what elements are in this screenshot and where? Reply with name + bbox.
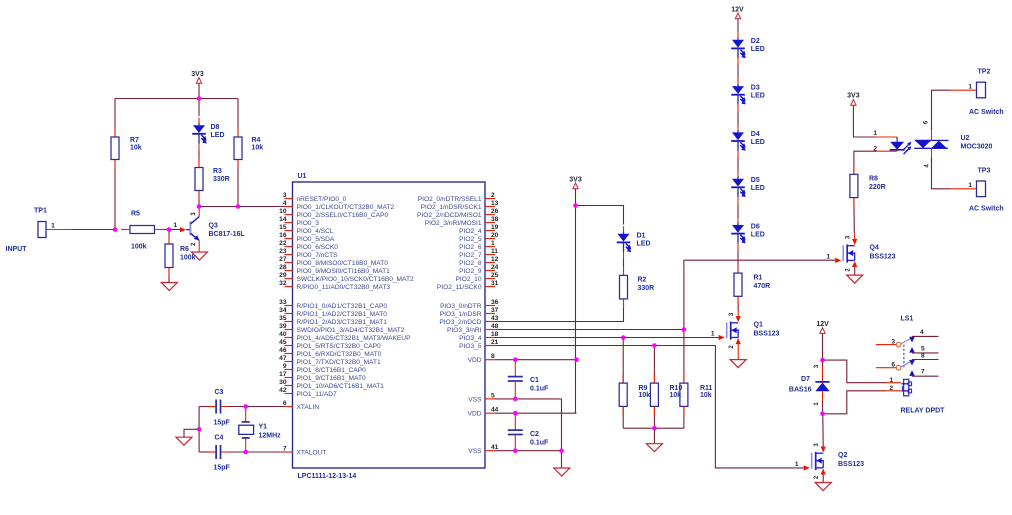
wire to D5 bbox=[737, 158, 739, 172]
resistor R2 bbox=[623, 259, 625, 276]
junction R3/Q3 collector bbox=[197, 204, 202, 209]
svg-text:15pF: 15pF bbox=[214, 465, 231, 472]
junction C2 bottom bbox=[513, 448, 518, 453]
svg-text:220R: 220R bbox=[869, 184, 886, 191]
junction 3V3/VDD row bbox=[574, 357, 579, 362]
capacitor C2 bbox=[514, 413, 516, 430]
wire 3V3 to top rail bbox=[198, 83, 200, 98]
svg-text:18: 18 bbox=[491, 331, 499, 338]
U1 right pins PIO3 group bbox=[485, 305, 495, 307]
svg-text:R8: R8 bbox=[869, 176, 878, 183]
svg-text:LED: LED bbox=[751, 185, 765, 192]
ground under R6 bbox=[161, 283, 177, 291]
power 3V3 (opto) bbox=[851, 100, 856, 106]
wire Q2 source to ground bbox=[822, 474, 824, 482]
wire to LED D1 bbox=[576, 206, 624, 225]
svg-text:2: 2 bbox=[873, 146, 877, 153]
svg-text:19: 19 bbox=[491, 224, 499, 231]
resistor R3 bbox=[195, 168, 203, 191]
svg-text:1: 1 bbox=[873, 130, 877, 137]
svg-text:27: 27 bbox=[279, 256, 287, 263]
wire to relay coil pin 2 bbox=[823, 391, 887, 414]
U1 pin 8 VDD bbox=[485, 359, 495, 361]
relay pole 2 common pin 6 bbox=[876, 367, 896, 369]
svg-text:D4: D4 bbox=[751, 131, 760, 138]
wire 3V3 to U2 pin 1 bbox=[853, 105, 876, 137]
ground under Q3 emitter bbox=[192, 252, 208, 260]
wire PIO3_3 row to R11 bbox=[495, 329, 684, 331]
wire cap ground rail bbox=[198, 407, 200, 453]
svg-text:Q1: Q1 bbox=[754, 322, 763, 329]
svg-text:24: 24 bbox=[491, 264, 499, 271]
svg-text:2: 2 bbox=[889, 385, 893, 392]
svg-text:26: 26 bbox=[491, 208, 499, 215]
svg-text:37: 37 bbox=[491, 307, 499, 314]
svg-text:30: 30 bbox=[279, 379, 287, 386]
svg-text:20: 20 bbox=[491, 232, 499, 239]
svg-text:0.1uF: 0.1uF bbox=[530, 386, 549, 393]
resistor R8 bbox=[850, 174, 858, 197]
power 12V (LED chain) bbox=[735, 13, 740, 19]
junction TP1/R7/R5 bbox=[113, 227, 118, 232]
svg-text:C3: C3 bbox=[215, 389, 224, 396]
LED D2 bbox=[737, 37, 739, 39]
junction top rail / D8 bbox=[197, 96, 202, 101]
wire VSS to ground bbox=[561, 451, 563, 468]
LED D6 bbox=[737, 223, 739, 225]
resistor R7 bbox=[114, 99, 116, 138]
wire to D4 bbox=[737, 111, 739, 125]
wire R5 to Q3 base bbox=[155, 229, 182, 231]
svg-text:RELAY DPDT: RELAY DPDT bbox=[901, 408, 946, 415]
U1 left pins PIO1 group bbox=[285, 305, 293, 307]
wire R1 to Q1 drain bbox=[737, 296, 739, 310]
svg-text:PIO2_5: PIO2_5 bbox=[459, 236, 482, 243]
svg-text:6: 6 bbox=[891, 362, 895, 369]
svg-text:35: 35 bbox=[279, 315, 287, 322]
svg-text:3V3: 3V3 bbox=[847, 93, 860, 100]
wire to relay coil pin 1 bbox=[823, 360, 887, 383]
wire to ground bbox=[653, 428, 655, 444]
junction ground rail bbox=[652, 426, 657, 431]
svg-text:R2: R2 bbox=[638, 277, 647, 284]
test point TP2 bbox=[977, 82, 986, 98]
svg-text:C4: C4 bbox=[215, 435, 224, 442]
svg-text:1: 1 bbox=[826, 254, 830, 261]
svg-text:SWCLK/PIO0_10/SCK0/CT16B0_MAT2: SWCLK/PIO0_10/SCK0/CT16B0_MAT2 bbox=[297, 276, 414, 283]
U1 right pins PIO2 group bbox=[485, 198, 495, 200]
svg-text:PIO2_1/nDSR/SCK1: PIO2_1/nDSR/SCK1 bbox=[421, 204, 482, 211]
wire VDD pin44 row bbox=[495, 412, 577, 414]
svg-text:9: 9 bbox=[283, 363, 287, 370]
svg-text:330R: 330R bbox=[213, 176, 230, 183]
resistor R1 bbox=[734, 273, 742, 296]
svg-text:41: 41 bbox=[491, 444, 499, 451]
wire to D3 bbox=[737, 65, 739, 79]
svg-text:PIO2_3/nRI/MOSI1: PIO2_3/nRI/MOSI1 bbox=[425, 220, 482, 227]
svg-text:10k: 10k bbox=[639, 392, 651, 399]
wire to D6 bbox=[737, 204, 739, 218]
svg-text:XTALOUT: XTALOUT bbox=[297, 449, 327, 456]
svg-text:330R: 330R bbox=[638, 285, 655, 292]
svg-text:45: 45 bbox=[279, 339, 287, 346]
svg-text:R9: R9 bbox=[639, 385, 648, 392]
svg-text:21: 21 bbox=[491, 339, 499, 346]
svg-text:PIO0_6/SCK0: PIO0_6/SCK0 bbox=[297, 244, 339, 251]
ground (crystal) bbox=[176, 437, 192, 445]
svg-text:VDD: VDD bbox=[468, 411, 482, 418]
test point TP1 bbox=[38, 222, 46, 238]
svg-text:1: 1 bbox=[889, 377, 893, 384]
svg-text:28: 28 bbox=[279, 264, 287, 271]
svg-text:PIO1_10/AD6/CT16B1_MAT1: PIO1_10/AD6/CT16B1_MAT1 bbox=[297, 383, 385, 390]
svg-text:PIO2_11/SCK0: PIO2_11/SCK0 bbox=[437, 284, 482, 291]
junction D7/Q2 drain/coil bbox=[820, 412, 825, 417]
svg-text:31: 31 bbox=[491, 280, 499, 287]
ground (Q2) bbox=[815, 483, 831, 491]
wire 3V3 vertical rail to VDD bbox=[575, 189, 577, 414]
svg-text:12: 12 bbox=[491, 256, 499, 263]
svg-text:PIO1_6/RXD/CT32B0_MAT0: PIO1_6/RXD/CT32B0_MAT0 bbox=[297, 351, 382, 358]
relay coil bbox=[904, 379, 909, 395]
svg-text:PIO1_7/TXD/CT32B0_MAT1: PIO1_7/TXD/CT32B0_MAT1 bbox=[297, 359, 381, 366]
svg-text:47: 47 bbox=[279, 355, 287, 362]
wire U2 pin 4 to TP3 bbox=[931, 148, 933, 162]
ground (pulldowns) bbox=[646, 444, 662, 452]
svg-text:PIO0_3: PIO0_3 bbox=[297, 220, 320, 227]
svg-text:TP3: TP3 bbox=[978, 168, 991, 175]
svg-text:R10: R10 bbox=[670, 385, 683, 392]
crystal Y1 12MHz bbox=[245, 407, 247, 422]
svg-text:1: 1 bbox=[491, 240, 495, 247]
svg-text:AC Switch: AC Switch bbox=[969, 109, 1004, 116]
svg-text:R/PIO1_0/AD1/CT32B1_CAP0: R/PIO1_0/AD1/CT32B1_CAP0 bbox=[297, 303, 388, 310]
svg-text:7: 7 bbox=[283, 445, 287, 452]
junction Y1/XTALIN bbox=[243, 404, 248, 409]
resistor R11 bbox=[683, 330, 685, 384]
wire R11 node to Q4 gate bbox=[684, 260, 835, 329]
svg-text:C1: C1 bbox=[530, 377, 539, 384]
wire to D2 bbox=[737, 19, 739, 33]
test point TP3 bbox=[977, 181, 986, 197]
relay contact pin 8 bbox=[909, 360, 915, 366]
svg-text:LED: LED bbox=[751, 231, 765, 238]
wire Q4 source to ground bbox=[854, 267, 856, 275]
svg-text:PIO2_0/nDTR/SSEL1: PIO2_0/nDTR/SSEL1 bbox=[418, 196, 482, 203]
svg-text:0.1uF: 0.1uF bbox=[530, 440, 549, 447]
junction VSS/ground bbox=[559, 448, 564, 453]
svg-text:U2: U2 bbox=[961, 135, 970, 142]
svg-text:R/PIO1_2/AD3/CT32B1_MAT1: R/PIO1_2/AD3/CT32B1_MAT1 bbox=[297, 319, 388, 326]
svg-text:PIO3_3/nRI: PIO3_3/nRI bbox=[447, 327, 482, 334]
svg-text:R7: R7 bbox=[130, 137, 139, 144]
svg-text:10k: 10k bbox=[130, 145, 142, 152]
svg-text:PIO0_1/CLKOUT/CT32B0_MAT2: PIO0_1/CLKOUT/CT32B0_MAT2 bbox=[297, 204, 395, 211]
junction R9 bbox=[621, 335, 626, 340]
svg-text:13: 13 bbox=[491, 200, 499, 207]
svg-text:40: 40 bbox=[279, 331, 287, 338]
svg-text:32: 32 bbox=[279, 280, 287, 287]
svg-text:nRESET/PIO0_0: nRESET/PIO0_0 bbox=[297, 196, 347, 203]
svg-text:U1: U1 bbox=[298, 173, 307, 180]
svg-text:D8: D8 bbox=[211, 124, 220, 131]
wire Q1 source to ground bbox=[737, 344, 739, 360]
svg-text:15pF: 15pF bbox=[214, 420, 231, 427]
svg-text:D7: D7 bbox=[801, 376, 810, 383]
ground (VSS) bbox=[554, 468, 570, 476]
svg-text:17: 17 bbox=[279, 371, 287, 378]
wire pulldown ground rail bbox=[623, 427, 684, 429]
svg-text:7: 7 bbox=[921, 369, 925, 376]
svg-text:1: 1 bbox=[968, 84, 972, 91]
svg-text:VSS: VSS bbox=[468, 396, 482, 403]
svg-text:PIO2_9: PIO2_9 bbox=[459, 268, 482, 275]
svg-text:44: 44 bbox=[491, 407, 499, 414]
svg-text:29: 29 bbox=[279, 272, 287, 279]
wire R8 to Q4 drain bbox=[853, 198, 855, 233]
svg-text:PIO3_4: PIO3_4 bbox=[459, 335, 482, 342]
wire PIO3_4 row to Q1 gate bbox=[495, 337, 721, 339]
svg-text:R1: R1 bbox=[754, 275, 763, 282]
svg-text:38: 38 bbox=[491, 216, 499, 223]
junction 12V/D7/coil bbox=[820, 358, 825, 363]
U2 triac bbox=[915, 139, 949, 141]
svg-text:10k: 10k bbox=[670, 392, 682, 399]
transistor Q3 BC817-16L bbox=[186, 229, 190, 231]
svg-text:470R: 470R bbox=[754, 283, 771, 290]
svg-text:3: 3 bbox=[891, 339, 895, 346]
svg-text:TP2: TP2 bbox=[978, 69, 991, 76]
wire PIO3_5 row to Q2 gate bbox=[495, 346, 804, 468]
svg-text:Y1: Y1 bbox=[259, 424, 268, 431]
svg-text:LED: LED bbox=[637, 240, 651, 247]
svg-text:23: 23 bbox=[279, 248, 287, 255]
svg-text:R/PIO1_1/AD2/CT32B1_MAT0: R/PIO1_1/AD2/CT32B1_MAT0 bbox=[297, 311, 388, 318]
LED D5 bbox=[737, 176, 739, 178]
wire D6 to R1 bbox=[737, 250, 739, 273]
optocoupler U2 MOC3020 bbox=[896, 137, 898, 142]
svg-text:D1: D1 bbox=[637, 233, 646, 240]
U1 pin 5 VSS bbox=[485, 398, 495, 400]
svg-text:PIO0_2/SSEL0/CT16B0_CAP0: PIO0_2/SSEL0/CT16B0_CAP0 bbox=[297, 212, 389, 219]
relay pole 1 common pin 3 bbox=[876, 344, 896, 346]
svg-text:5: 5 bbox=[921, 346, 925, 353]
svg-text:3V3: 3V3 bbox=[569, 177, 582, 184]
ground (Q1) bbox=[730, 360, 746, 368]
power 3V3 (left) bbox=[196, 78, 201, 84]
svg-text:PIO1_9/CT16B1_MAT0: PIO1_9/CT16B1_MAT0 bbox=[297, 375, 366, 382]
svg-text:BC817-16L: BC817-16L bbox=[209, 231, 246, 238]
svg-text:Q3: Q3 bbox=[209, 223, 218, 230]
U1 pin 44 VDD bbox=[485, 412, 495, 414]
svg-text:R4: R4 bbox=[252, 137, 261, 144]
svg-text:48: 48 bbox=[491, 323, 499, 330]
svg-text:VDD: VDD bbox=[468, 357, 482, 364]
svg-text:D6: D6 bbox=[751, 223, 760, 230]
svg-text:8: 8 bbox=[491, 353, 495, 360]
wire U2 pin 6 to TP2 bbox=[931, 126, 933, 140]
svg-text:PIO2_8: PIO2_8 bbox=[459, 260, 482, 267]
resistor R10 bbox=[653, 346, 655, 384]
wire R2 to PIO3_2 row bbox=[495, 299, 624, 322]
svg-text:1: 1 bbox=[173, 222, 177, 229]
svg-text:C2: C2 bbox=[530, 431, 539, 438]
svg-text:11: 11 bbox=[491, 248, 498, 255]
svg-text:PIO1_8/CT16B1_CAP0: PIO1_8/CT16B1_CAP0 bbox=[297, 367, 367, 374]
svg-text:XTALIN: XTALIN bbox=[297, 404, 320, 411]
svg-text:PIO0_7/nCTS: PIO0_7/nCTS bbox=[297, 252, 339, 259]
svg-text:16: 16 bbox=[279, 232, 287, 239]
svg-text:PIO3_1/nDSR: PIO3_1/nDSR bbox=[440, 311, 482, 318]
svg-text:LS1: LS1 bbox=[901, 316, 914, 323]
svg-text:3V3: 3V3 bbox=[191, 71, 204, 78]
svg-text:INPUT: INPUT bbox=[6, 246, 28, 253]
svg-text:10k: 10k bbox=[252, 145, 264, 152]
svg-text:PIO1_4/AD5/CT32B1_MAT3/WAKEUP: PIO1_4/AD5/CT32B1_MAT3/WAKEUP bbox=[297, 335, 412, 342]
resistor R9 bbox=[622, 338, 624, 384]
svg-text:8: 8 bbox=[921, 353, 925, 360]
transistor Q1 BSS123 bbox=[726, 322, 728, 338]
svg-text:15: 15 bbox=[279, 224, 287, 231]
LED D3 bbox=[737, 84, 739, 86]
junction D1 branch bbox=[573, 203, 578, 208]
svg-text:1: 1 bbox=[711, 331, 715, 338]
svg-text:22: 22 bbox=[279, 240, 287, 247]
wire U2 pin 2 to R8 bbox=[876, 150, 898, 152]
junction R11/Q4 gate bbox=[682, 327, 687, 332]
svg-text:34: 34 bbox=[279, 307, 287, 314]
svg-text:36: 36 bbox=[491, 299, 499, 306]
junction ground rail bbox=[197, 427, 202, 432]
wire VSS loop down bbox=[561, 399, 563, 451]
relay contact pin 7 bbox=[909, 370, 915, 376]
svg-text:PIO0_9/MOSI0/CTI16B0_MAT1: PIO0_9/MOSI0/CTI16B0_MAT1 bbox=[297, 268, 391, 275]
svg-text:BAS16: BAS16 bbox=[789, 387, 812, 394]
red pin stubs layer bbox=[114, 128, 116, 137]
transistor Q4 BSS123 bbox=[842, 245, 844, 261]
svg-text:12MHz: 12MHz bbox=[259, 433, 282, 440]
svg-text:46: 46 bbox=[279, 347, 287, 354]
svg-text:R6: R6 bbox=[180, 246, 189, 253]
svg-text:14: 14 bbox=[279, 216, 287, 223]
svg-text:10k: 10k bbox=[700, 392, 712, 399]
relay pole 2 armature bbox=[901, 361, 911, 367]
svg-text:PIO0_4/SCL: PIO0_4/SCL bbox=[297, 228, 334, 235]
wire top rail bbox=[115, 98, 238, 100]
wire VSS pin5 row bbox=[495, 398, 562, 400]
svg-text:12V: 12V bbox=[731, 7, 744, 14]
wire TP1 to R5 bbox=[46, 229, 115, 231]
svg-text:AC Switch: AC Switch bbox=[969, 206, 1004, 213]
U1 pin 41 VSS bbox=[485, 450, 495, 452]
svg-text:6: 6 bbox=[283, 400, 287, 407]
capacitor C4 bbox=[199, 451, 214, 453]
svg-text:BSS123: BSS123 bbox=[754, 331, 780, 338]
svg-text:100k: 100k bbox=[180, 255, 196, 262]
relay pole 1 armature bbox=[901, 338, 911, 344]
U1 left pins PIO0 group bbox=[285, 198, 293, 200]
svg-text:D5: D5 bbox=[751, 177, 760, 184]
wire to ground bbox=[184, 429, 199, 437]
svg-text:BSS123: BSS123 bbox=[870, 253, 896, 260]
svg-text:LED: LED bbox=[751, 93, 765, 100]
svg-text:Q2: Q2 bbox=[838, 452, 847, 459]
U1 pin 7 XTALOUT bbox=[285, 451, 293, 453]
svg-text:R11: R11 bbox=[700, 385, 713, 392]
svg-text:1: 1 bbox=[795, 461, 799, 468]
IC U1 LPC1111 body bbox=[293, 182, 486, 468]
wire D7 node to Q2 drain bbox=[822, 414, 824, 446]
svg-text:3: 3 bbox=[283, 192, 287, 199]
diode D7 BAS16 bbox=[822, 360, 824, 366]
wire VDD pin8 row bbox=[495, 359, 577, 361]
svg-text:2: 2 bbox=[491, 192, 495, 199]
capacitor C3 bbox=[199, 406, 214, 408]
junction C2 top bbox=[513, 411, 518, 416]
svg-text:PIO0_8/MISO0/CT16B0_MAT0: PIO0_8/MISO0/CT16B0_MAT0 bbox=[297, 260, 389, 267]
svg-text:R3: R3 bbox=[213, 168, 222, 175]
svg-text:LED: LED bbox=[751, 46, 765, 53]
LED D8 bbox=[198, 99, 200, 117]
svg-text:PIO2_10: PIO2_10 bbox=[455, 276, 481, 283]
wire VSS pin41 row bbox=[495, 450, 562, 452]
wire XTALOUT row bbox=[223, 451, 285, 453]
relay link dashed bbox=[903, 345, 905, 368]
svg-text:42: 42 bbox=[279, 387, 287, 394]
resistor R4 bbox=[237, 99, 239, 138]
junction C1 bottom bbox=[513, 397, 518, 402]
LED D1 bbox=[623, 231, 625, 233]
junction R4 bottom bbox=[236, 204, 241, 209]
LED D4 bbox=[737, 130, 739, 132]
U1 pin 6 XTALIN bbox=[285, 406, 293, 408]
svg-text:PIO2_4: PIO2_4 bbox=[459, 228, 482, 235]
svg-text:5: 5 bbox=[491, 392, 495, 399]
U2 light arrows bbox=[904, 143, 911, 150]
svg-text:39: 39 bbox=[279, 323, 287, 330]
svg-text:R/PIO0_11/AD0/CT32B0_MAT3: R/PIO0_11/AD0/CT32B0_MAT3 bbox=[297, 284, 391, 291]
junction Y1/XTALOUT bbox=[243, 450, 248, 455]
transistor Q2 BSS123 bbox=[811, 453, 813, 469]
svg-text:Q4: Q4 bbox=[870, 244, 879, 251]
svg-text:33: 33 bbox=[279, 299, 287, 306]
svg-text:PIO1_5/RTS/CT32B0_CAP0: PIO1_5/RTS/CT32B0_CAP0 bbox=[297, 343, 382, 350]
svg-text:BSS123: BSS123 bbox=[838, 461, 864, 468]
ground (Q4) bbox=[847, 275, 863, 283]
junction C1 top bbox=[513, 357, 518, 362]
svg-text:R5: R5 bbox=[131, 211, 140, 218]
resistor R6 bbox=[168, 230, 170, 245]
relay contact pin 5 bbox=[909, 347, 915, 353]
svg-text:SWDIO/PIO1_3/AD4/CT32B1_MAT2: SWDIO/PIO1_3/AD4/CT32B1_MAT2 bbox=[297, 327, 405, 334]
svg-text:VSS: VSS bbox=[468, 448, 482, 455]
svg-text:43: 43 bbox=[491, 315, 499, 322]
junction R5/R6/base bbox=[167, 227, 172, 232]
svg-text:PIO2_6: PIO2_6 bbox=[459, 244, 482, 251]
wire node to MCU pin 4 bbox=[199, 206, 285, 208]
svg-text:PIO3_5: PIO3_5 bbox=[459, 343, 482, 350]
relay contact pin 4 bbox=[909, 337, 915, 343]
svg-text:PIO3_0/nDTR: PIO3_0/nDTR bbox=[440, 303, 482, 310]
svg-text:12V: 12V bbox=[816, 321, 829, 328]
svg-text:10: 10 bbox=[279, 208, 287, 215]
svg-text:4: 4 bbox=[283, 200, 287, 207]
svg-text:PIO3_2/nDCD: PIO3_2/nDCD bbox=[439, 319, 481, 326]
power 3V3 (mid) bbox=[573, 183, 578, 189]
wire 12V to D7 node bbox=[822, 333, 824, 360]
svg-text:PIO2_7: PIO2_7 bbox=[459, 252, 482, 259]
svg-text:4: 4 bbox=[920, 329, 924, 336]
